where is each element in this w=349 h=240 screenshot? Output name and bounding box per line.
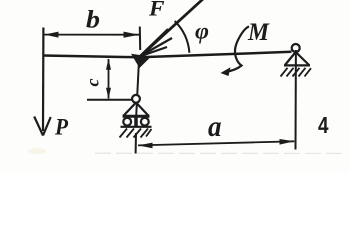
svg-text:φ: φ	[195, 19, 209, 44]
dimension b line	[44, 34, 139, 36]
dimension a left arrow	[138, 143, 153, 149]
label P	[54, 115, 69, 140]
middle support ground hatching	[120, 129, 152, 138]
label M	[247, 19, 270, 46]
dimension b left arrow	[44, 32, 58, 38]
right support ground hatching	[281, 68, 312, 77]
scan page edge faint line	[95, 152, 345, 154]
angle phi arc	[175, 21, 190, 53]
paper smudge	[28, 148, 46, 154]
right support center line / dimension a right extension	[295, 50, 297, 150]
label b	[86, 7, 100, 34]
svg-text:M: M	[247, 19, 270, 46]
force F sketch whiskers	[140, 29, 173, 57]
label F	[148, 0, 165, 21]
svg-text:b: b	[86, 7, 100, 34]
dimension a line	[138, 141, 294, 145]
left end vertical extension line	[42, 28, 45, 132]
dimension a left extension line	[135, 133, 137, 154]
force F line	[140, 0, 204, 57]
dimension c line with arrows	[106, 59, 111, 99]
beam	[43, 52, 292, 58]
force P arrow	[34, 117, 51, 136]
svg-text:c: c	[83, 79, 103, 87]
svg-text:a: a	[208, 110, 222, 143]
dimension c reference line	[87, 99, 133, 101]
middle support hinge pin line	[136, 64, 139, 116]
label a	[208, 110, 222, 143]
right support triangle	[284, 52, 310, 65]
middle support pin circle	[132, 95, 140, 103]
dimension b right arrow	[124, 32, 140, 38]
svg-text:P: P	[54, 115, 69, 140]
variant number 4	[318, 112, 329, 138]
right support pin circle	[292, 44, 300, 52]
force F arrowhead	[131, 54, 151, 68]
svg-text:F: F	[148, 0, 165, 21]
moment M arrowhead	[221, 67, 231, 76]
middle support rollers	[123, 117, 148, 127]
svg-text:4: 4	[318, 112, 329, 138]
middle support triangle	[123, 103, 150, 117]
dimension a right arrow	[280, 139, 295, 145]
moment M arc	[226, 27, 249, 72]
middle support ground line	[121, 126, 152, 128]
label c (rotated)	[83, 79, 103, 87]
label phi	[195, 19, 209, 44]
dimension b right tick	[139, 27, 141, 51]
